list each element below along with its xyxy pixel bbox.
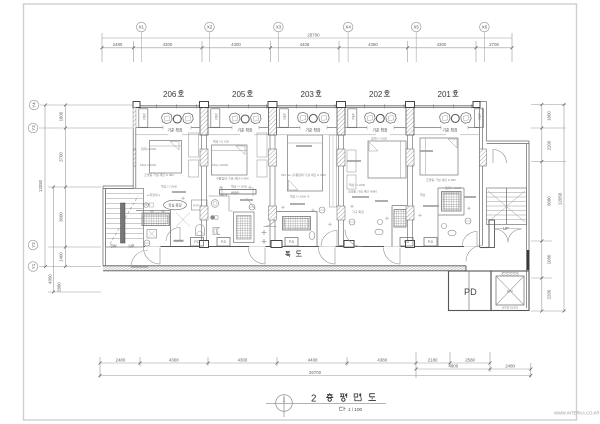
unit 206 toilet xyxy=(196,225,205,236)
svg-text:2180: 2180 xyxy=(428,357,438,362)
corridor bottom exterior wall with hatch band xyxy=(103,266,466,271)
grid X1 bubble xyxy=(137,22,147,32)
balcony inner wall line (all units) xyxy=(136,127,480,129)
right stair mid rail xyxy=(506,188,508,225)
unit 206 bath walls xyxy=(136,211,171,247)
svg-text:X4: X4 xyxy=(345,25,351,30)
unit 203 round table xyxy=(309,114,317,122)
unit 201 notes xyxy=(420,177,461,197)
svg-text:NVP-I: NVP-I xyxy=(193,204,201,208)
unit 206 notes xyxy=(140,146,177,207)
stair center rail xyxy=(121,203,126,243)
unit 202 armchair left xyxy=(365,113,376,124)
mid-height hatch columns on party walls xyxy=(133,149,486,220)
unit 203 tag xyxy=(319,207,325,213)
corner blocks on top wall xyxy=(133,102,480,108)
unit 202 round table xyxy=(376,114,384,122)
svg-text:책상 H 1000 수: 책상 H 1000 수 xyxy=(290,194,310,199)
grid X4 bubble xyxy=(343,22,353,32)
svg-text:기준 확장: 기준 확장 xyxy=(372,128,388,133)
svg-text:4950: 4950 xyxy=(48,274,53,284)
unit 205 notes xyxy=(212,139,249,198)
unit 203 entry door arc xyxy=(321,231,337,247)
svg-text:REF: REF xyxy=(352,113,356,119)
svg-text:기준 확장: 기준 확장 xyxy=(305,128,321,133)
svg-text:조명등 가설 세단 H 980: 조명등 가설 세단 H 980 xyxy=(426,177,456,182)
corridor door arcs xyxy=(144,248,401,265)
unit 202 bed xyxy=(368,141,406,178)
svg-text:4308: 4308 xyxy=(169,357,179,362)
svg-text:12050: 12050 xyxy=(38,179,43,192)
unit 205 armchair left xyxy=(230,113,241,124)
unit 205 round table xyxy=(241,115,249,123)
unit 206 bubble label xyxy=(164,200,187,210)
hall bottom wall xyxy=(480,247,489,249)
svg-text:4408: 4408 xyxy=(308,357,318,362)
bottom dimension ticks xyxy=(99,362,533,378)
unit 202 notes xyxy=(348,136,387,215)
left dimension ticks xyxy=(44,104,67,294)
svg-text:3600: 3600 xyxy=(59,212,64,222)
svg-text:4300: 4300 xyxy=(238,357,248,362)
elevator X symbol xyxy=(496,276,524,305)
grid Y4 bubble xyxy=(29,100,39,110)
unit 205 bed xyxy=(212,145,248,175)
unit 202 toilet xyxy=(375,229,383,235)
grid X6 bubble xyxy=(480,22,490,32)
top segment dimension line xyxy=(102,41,512,62)
unit 205 armchair right xyxy=(251,113,262,124)
svg-text:2480: 2480 xyxy=(113,42,123,47)
svg-text:책상 H 1600: 책상 H 1600 xyxy=(161,184,177,189)
drawing number bubble xyxy=(276,395,293,412)
stair direction dashed line xyxy=(110,196,138,244)
unit 205 balcony: REF box xyxy=(211,109,261,133)
svg-text:2708: 2708 xyxy=(489,42,499,47)
svg-text:205: 205 xyxy=(232,90,246,99)
window mullion ticks on top wall xyxy=(157,104,472,108)
svg-text:394 GL (구름침대 가설 세단 H 980): 394 GL (구름침대 가설 세단 H 980) xyxy=(281,172,326,177)
svg-text:2200: 2200 xyxy=(547,140,552,150)
unit 203 closet strip xyxy=(330,135,337,207)
unit 202 tag xyxy=(349,219,355,225)
svg-text:X3: X3 xyxy=(276,25,282,30)
svg-text:4300: 4300 xyxy=(437,42,447,47)
svg-text:E/V: E/V xyxy=(507,290,513,294)
svg-text:3700: 3700 xyxy=(59,152,64,162)
svg-text:PD: PD xyxy=(464,287,477,297)
unit 205 side furniture xyxy=(257,133,267,157)
svg-text:H80(I): H80(I) xyxy=(231,191,239,195)
svg-text:4300: 4300 xyxy=(163,42,173,47)
right stair treads xyxy=(487,193,527,220)
unit 206 bifold door X xyxy=(176,213,190,227)
unit 202 washbasin xyxy=(377,219,382,224)
stair treads xyxy=(106,194,144,239)
unit 202 armchair right xyxy=(386,113,397,124)
svg-text:4408: 4408 xyxy=(300,42,310,47)
unit 203 bathtub xyxy=(283,217,311,231)
right dimension ticks xyxy=(540,103,565,313)
svg-text:4800: 4800 xyxy=(448,363,458,368)
svg-text:WWW.INTERKA.CO.KR: WWW.INTERKA.CO.KR xyxy=(554,411,599,416)
unit 205 shower tub (vertical) xyxy=(234,212,255,243)
unit 202 side furniture xyxy=(347,150,356,172)
svg-text:X2: X2 xyxy=(207,25,213,30)
unit 202 entry door arc xyxy=(345,230,362,247)
svg-text:기준 확장: 기준 확장 xyxy=(237,128,253,133)
unit 203 armchair left xyxy=(298,112,309,123)
grid X3 bubble xyxy=(274,22,284,32)
annex left wall xyxy=(102,186,104,266)
svg-text:REF: REF xyxy=(283,113,287,119)
corridor door arc at hall xyxy=(466,246,482,262)
unit 206 armchair left xyxy=(162,113,173,124)
svg-text:2: 2 xyxy=(311,393,316,404)
svg-text:2480: 2480 xyxy=(505,363,515,368)
svg-text:2580: 2580 xyxy=(465,357,475,362)
svg-text:P.D: P.D xyxy=(289,240,295,244)
PD shaft room xyxy=(449,271,492,311)
svg-text:욕실 확장: 욕실 확장 xyxy=(168,203,181,208)
party wall PW2 xyxy=(268,102,282,248)
unit 206 entry cabinet xyxy=(147,230,157,239)
svg-text:1 / 100: 1 / 100 xyxy=(348,407,362,412)
svg-text:X6: X6 xyxy=(482,25,488,30)
top dimension ticks xyxy=(101,46,514,49)
svg-text:202: 202 xyxy=(369,90,383,99)
svg-text:203: 203 xyxy=(301,90,315,99)
grid Y1 bubble xyxy=(28,262,38,272)
left exterior wall xyxy=(133,105,136,189)
corridor PD boxes xyxy=(191,238,438,247)
unit 203 notes xyxy=(281,172,326,199)
unit 201 washbasin xyxy=(441,223,446,228)
unit 205 toilet xyxy=(213,228,220,235)
grid Y3 bubble xyxy=(28,123,38,133)
svg-text:201: 201 xyxy=(438,90,452,99)
unit 205 entry door arc xyxy=(264,214,277,227)
unit 206 tag xyxy=(144,240,150,246)
unit 201 round table xyxy=(451,114,459,122)
elevator shaft xyxy=(491,271,529,311)
svg-text:26700: 26700 xyxy=(309,370,322,375)
svg-text:책상 H 1600: 책상 H 1600 xyxy=(231,184,247,189)
unit 201 balcony: REF box at right xyxy=(440,109,484,133)
svg-text:P.D: P.D xyxy=(194,240,200,244)
unit 203 toilet xyxy=(309,232,315,240)
unit 202 balcony: REF box xyxy=(348,109,396,133)
svg-text:REF: REF xyxy=(215,113,219,119)
unit 205 pod diagonal xyxy=(247,198,256,210)
unit 205 washbasin xyxy=(211,200,219,208)
svg-text:UP: UP xyxy=(129,244,135,249)
unit 201 armchair right xyxy=(461,113,472,124)
top overall dimension line 28700 xyxy=(102,33,512,62)
svg-text:28700: 28700 xyxy=(307,32,320,37)
right exterior wall of unit block xyxy=(480,102,487,248)
svg-text:1800: 1800 xyxy=(59,111,64,121)
svg-text:2480: 2480 xyxy=(116,357,126,362)
svg-text:5080: 5080 xyxy=(547,196,552,206)
unit 206 round table xyxy=(173,115,181,123)
party wall PW4 xyxy=(406,102,415,248)
annex right wall xyxy=(528,141,530,311)
unit 206 bathtub xyxy=(142,213,170,226)
balcony opening jambs xyxy=(163,126,468,130)
grid X stems xyxy=(141,32,484,62)
right stair outline xyxy=(487,188,527,225)
svg-text:4380: 4380 xyxy=(368,42,378,47)
svg-text:구름침대 가설 세단 H 984: 구름침대 가설 세단 H 984 xyxy=(216,176,249,181)
svg-text:1080: 1080 xyxy=(547,254,552,264)
unit 202 bath walls xyxy=(392,206,407,247)
unit 205 tag xyxy=(249,204,255,210)
unit 206 bed xyxy=(150,141,182,174)
svg-text:206: 206 xyxy=(163,90,177,99)
unit 201 armchair left xyxy=(440,113,451,124)
svg-text:MQL H2000: MQL H2000 xyxy=(140,163,156,167)
svg-text:기준 확장: 기준 확장 xyxy=(167,128,183,133)
terrace door arc xyxy=(131,250,148,267)
svg-text:Y4: Y4 xyxy=(32,102,37,108)
svg-text:2880: 2880 xyxy=(57,282,62,292)
unit 205 entry cross marks xyxy=(262,230,267,244)
svg-text:(6인승 ELEV): (6인승 ELEV) xyxy=(502,306,519,310)
unit 205 vanity desk xyxy=(220,190,257,195)
annex top wall xyxy=(103,185,133,187)
unit 203 armchair right xyxy=(319,112,330,123)
unit 203 bed (vertical) xyxy=(288,135,323,191)
elevator call niche (dark) xyxy=(527,250,530,270)
elevator door hatch xyxy=(502,272,518,275)
svg-text:1400: 1400 xyxy=(59,252,64,262)
room boundary lines under balconies xyxy=(136,134,480,136)
svg-text:침대 H2000: 침대 H2000 xyxy=(141,146,157,151)
svg-text:X5: X5 xyxy=(414,25,420,30)
svg-text:책상 H 1600: 책상 H 1600 xyxy=(349,182,365,187)
annex top wall xyxy=(487,140,530,142)
corridor top wall (with door openings) xyxy=(144,246,481,248)
svg-text:P.D: P.D xyxy=(404,240,410,244)
party wall PW3 xyxy=(337,102,355,248)
left wall hatch xyxy=(133,108,136,128)
unit 201 entry door arc xyxy=(462,232,477,247)
unit 203 bath walls xyxy=(277,212,318,247)
unit 206 entry door arc xyxy=(166,228,180,242)
unit 201 tag xyxy=(465,218,471,224)
unit 202 bathtub (vertical) xyxy=(394,210,406,228)
grid Y2 bubble xyxy=(28,240,38,250)
svg-text:책상 H1 000: 책상 H1 000 xyxy=(213,139,229,144)
svg-text:12058: 12058 xyxy=(558,192,563,205)
top exterior wall with window lines xyxy=(133,105,480,107)
svg-text:2200: 2200 xyxy=(547,289,552,299)
unit 201 bath walls xyxy=(438,188,464,247)
stair left outline xyxy=(106,189,144,248)
svg-text:침대 H 1000: 침대 H 1000 xyxy=(371,136,387,141)
svg-text:조명등 가설 세단 H 980: 조명등 가설 세단 H 980 xyxy=(144,172,174,177)
unit 201 bed xyxy=(420,138,458,175)
svg-text:Y1: Y1 xyxy=(31,263,36,269)
unit 206 balcony: REF box xyxy=(139,109,193,133)
unit 201 shower xyxy=(442,192,462,212)
svg-text:REF: REF xyxy=(478,113,482,119)
unit 206 washbasin xyxy=(144,203,149,208)
grid X2 bubble xyxy=(205,22,215,32)
svg-text:DN: DN xyxy=(111,244,117,249)
svg-text:침대 H 1000: 침대 H 1000 xyxy=(445,185,461,190)
unit 201 toilet xyxy=(448,230,456,236)
survey cross marks in units xyxy=(150,186,471,227)
svg-text:책상: 책상 xyxy=(420,192,426,197)
svg-text:4380: 4380 xyxy=(377,357,387,362)
unit 205 barbell fitting xyxy=(210,215,214,219)
greeked note bars xyxy=(172,145,476,207)
svg-text:Y2: Y2 xyxy=(31,242,36,248)
svg-text:Y3: Y3 xyxy=(31,125,36,131)
svg-text:1800: 1800 xyxy=(547,111,552,121)
grid X5 bubble xyxy=(411,22,421,32)
svg-text:a 화장대 a: a 화장대 a xyxy=(147,192,161,197)
stair hall double door xyxy=(495,229,522,243)
unit 206 toilet pod xyxy=(192,200,208,210)
svg-text:MQL H2000: MQL H2000 xyxy=(212,163,228,167)
party wall PW1 xyxy=(200,102,209,248)
hall lower partition wall xyxy=(489,220,495,248)
svg-text:가구 확장: 가구 확장 xyxy=(352,209,364,214)
svg-text:P.D: P.D xyxy=(428,240,434,244)
door thresholds in corridor wall xyxy=(145,246,479,248)
svg-text:X1: X1 xyxy=(139,25,145,30)
svg-text:4300: 4300 xyxy=(231,42,241,47)
stair hall door top xyxy=(493,150,507,164)
svg-text:REF: REF xyxy=(143,113,147,119)
corridor label 복도 xyxy=(285,251,290,257)
unit 206 side furniture xyxy=(189,133,199,157)
unit 206 armchair right xyxy=(183,113,194,124)
svg-text:기준 확장: 기준 확장 xyxy=(442,128,458,133)
unit 205 bath walls xyxy=(209,196,233,211)
svg-text:P.D: P.D xyxy=(221,240,227,244)
unit 203 balcony: REF box xyxy=(279,109,329,133)
